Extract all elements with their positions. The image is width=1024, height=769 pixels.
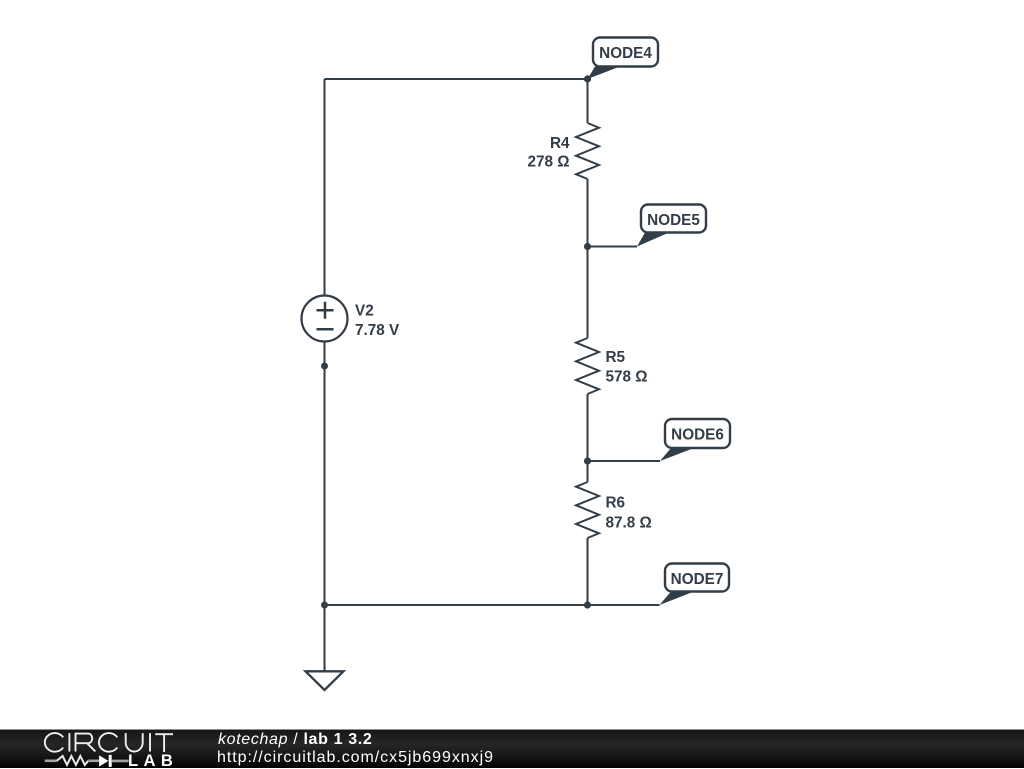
wire NODE5 stub to label tail bbox=[588, 246, 638, 248]
logo letter C bbox=[99, 733, 117, 752]
logo letter U bbox=[126, 733, 143, 751]
svg-text:R4: R4 bbox=[550, 135, 570, 152]
junction node NODE7 bbox=[584, 601, 591, 608]
wire NODE6 stub to label tail bbox=[588, 460, 661, 462]
footer bar bbox=[0, 729, 1024, 768]
node label NODE6 bbox=[660, 419, 730, 461]
node label NODE4 bbox=[588, 38, 659, 80]
node label NODE5 bbox=[637, 205, 706, 247]
resistor R5 bbox=[576, 338, 648, 394]
logo wire mid bbox=[88, 759, 99, 762]
svg-text:NODE4: NODE4 bbox=[599, 45, 652, 62]
resistor R6 bbox=[576, 482, 652, 538]
svg-text:NODE7: NODE7 bbox=[671, 571, 724, 588]
wire from V2 - terminal down to ground bbox=[324, 342, 326, 672]
logo letter I bbox=[149, 733, 151, 751]
svg-text:7.78 V: 7.78 V bbox=[355, 322, 400, 339]
logo letter I bbox=[68, 733, 70, 751]
junction dot at V2 minus wire bbox=[321, 363, 328, 370]
logo letter C bbox=[45, 733, 63, 752]
svg-text:NODE5: NODE5 bbox=[647, 212, 700, 229]
resistor R4 bbox=[527, 123, 599, 179]
logo diode bbox=[99, 755, 108, 766]
logo letter R bbox=[76, 734, 96, 752]
junction node NODE6 bbox=[584, 457, 591, 464]
logo wire left bbox=[45, 759, 57, 762]
byline text bbox=[218, 731, 372, 749]
wire R4 to R5 through NODE5 bbox=[587, 179, 589, 338]
logo wire right bbox=[112, 760, 129, 763]
junction node NODE4 bbox=[584, 75, 591, 82]
wire top horizontal from V2 branch to NODE4 bbox=[325, 78, 588, 80]
wire left vertical from top rail down to V2 + terminal bbox=[324, 79, 326, 296]
wire bottom rail to NODE7 tail bbox=[325, 604, 660, 606]
svg-text:R6: R6 bbox=[606, 494, 626, 511]
svg-text:578 Ω: 578 Ω bbox=[606, 369, 648, 386]
wire R6 down to bottom rail bbox=[587, 538, 589, 605]
junction dot bottom-left corner bbox=[321, 602, 328, 609]
CircuitLab logo bbox=[40, 730, 230, 769]
logo letter T bbox=[155, 733, 173, 735]
wire NODE4 down to R4 bbox=[587, 79, 589, 123]
svg-text:V2: V2 bbox=[355, 303, 374, 320]
voltage source V2 bbox=[302, 296, 401, 342]
svg-text:278 Ω: 278 Ω bbox=[527, 154, 569, 171]
svg-text:87.8 Ω: 87.8 Ω bbox=[606, 515, 652, 532]
svg-text:LAB: LAB bbox=[128, 751, 178, 769]
logo resistor zigzag bbox=[57, 756, 88, 765]
wire R5 to R6 through NODE6 bbox=[587, 394, 589, 482]
svg-text:NODE6: NODE6 bbox=[671, 427, 724, 444]
svg-text:R5: R5 bbox=[606, 349, 626, 366]
ground bbox=[306, 671, 344, 690]
node label NODE7 bbox=[660, 564, 730, 606]
junction node NODE5 bbox=[584, 243, 591, 250]
logo diode cathode bar bbox=[109, 755, 112, 767]
url text bbox=[217, 749, 494, 767]
